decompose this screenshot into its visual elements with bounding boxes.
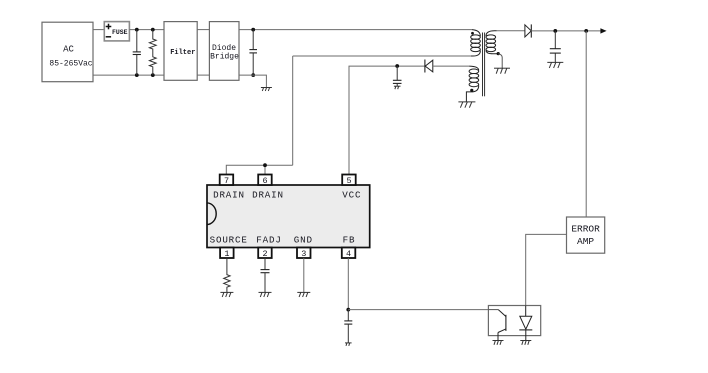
svg-text:FADJ: FADJ [256, 234, 281, 245]
junction drain bus / pin6 [263, 163, 267, 167]
pin 7 [220, 175, 234, 187]
capacitor C-vcc [393, 66, 402, 86]
svg-text:85-265Vac: 85-265Vac [49, 59, 92, 68]
IC U1 body [207, 185, 370, 248]
ground opto LED [520, 341, 531, 345]
wire secondary return [498, 54, 502, 68]
capacitor C-bulk [249, 30, 257, 76]
optocoupler phototransistor [488, 310, 506, 341]
diode D-out [497, 24, 532, 37]
wire FB pin down [347, 258, 349, 310]
junction top rail / R-in [151, 28, 155, 32]
svg-text:FB: FB [343, 234, 356, 245]
resistor R-in (double zigzag) [149, 30, 156, 76]
pin 4 [342, 248, 356, 260]
Filter block [164, 22, 197, 81]
transformer T1 primary winding [471, 30, 481, 56]
svg-text:Bridge: Bridge [210, 52, 239, 61]
pin 2 [258, 248, 272, 260]
wire VCC net right segment [433, 65, 469, 67]
ground C-out [547, 62, 563, 68]
wire output rail [531, 30, 601, 32]
svg-text:AMP: AMP [577, 236, 594, 247]
wire DC rail to transformer primary [239, 29, 472, 31]
optocoupler LED [519, 306, 532, 341]
fuse F1 [104, 22, 129, 41]
phase dot primary [471, 32, 474, 35]
ground C-vcc (small) [394, 86, 401, 89]
wire filter to diode bridge bottom [197, 74, 209, 76]
wire VCC net left segment [349, 66, 425, 174]
wire AC bottom to filter (bottom rail) [93, 74, 164, 76]
svg-text:6: 6 [262, 176, 267, 186]
svg-text:DRAIN: DRAIN [213, 189, 245, 200]
junction DC rail / C-bulk [251, 28, 255, 32]
svg-text:4: 4 [346, 249, 351, 259]
capacitor C-fadj [261, 258, 270, 292]
transformer T1 secondary winding [486, 31, 498, 54]
ground secondary [494, 68, 510, 74]
junction top rail / C-in [135, 28, 139, 32]
wire DB bottom to primary ground [239, 75, 266, 87]
junction VCC / C-vcc [395, 64, 399, 68]
ground opto emitter [493, 341, 504, 345]
wire filter to diode bridge top [197, 29, 209, 31]
wire GND pin to ground [303, 258, 305, 292]
optocoupler U2 box [488, 306, 540, 336]
wire drain bus to pins 7 and 6 [226, 165, 292, 174]
wire error amp tap down [585, 31, 587, 217]
transformer T1 aux winding [466, 66, 478, 102]
wire drain net horizontal [293, 55, 471, 57]
Diode Bridge block [209, 22, 239, 81]
wire drain riser [292, 56, 294, 165]
ground R-source [220, 292, 233, 297]
phase dot aux [470, 89, 473, 92]
junction bottom / C-bulk [251, 73, 255, 77]
svg-text:7: 7 [224, 176, 229, 186]
svg-text:SOURCE: SOURCE [210, 234, 248, 245]
svg-text:GND: GND [294, 234, 313, 245]
svg-text:DRAIN: DRAIN [252, 189, 284, 200]
svg-text:5: 5 [346, 176, 351, 186]
resistor R-source [224, 258, 230, 292]
junction output / C-out [553, 29, 557, 33]
ERROR AMP block [567, 217, 605, 253]
junction FB node [346, 308, 350, 312]
wire error amp to opto riser [526, 234, 567, 305]
phase dot secondary [497, 52, 500, 55]
pin 1 [220, 248, 234, 260]
output arrow [600, 28, 606, 33]
ground primary return [261, 88, 272, 92]
ground C-fb (small) [345, 343, 352, 346]
junction output / error amp tap [584, 29, 588, 33]
diode D-vcc [425, 60, 433, 73]
svg-text:AC: AC [63, 45, 74, 55]
svg-text:FUSE: FUSE [112, 29, 128, 36]
svg-text:Filter: Filter [170, 49, 195, 57]
ground aux [458, 102, 475, 108]
capacitor C-in [133, 30, 141, 76]
wire AC top to fuse [93, 29, 104, 31]
ground GND pin [297, 292, 310, 297]
wire fuse to filter (top rail) [129, 29, 164, 31]
wire FB node to optocoupler [348, 309, 488, 311]
svg-text:2: 2 [262, 249, 267, 259]
pin 5 [342, 175, 356, 187]
capacitor C-fb [344, 310, 352, 343]
junction bottom rail / C-in [135, 73, 139, 77]
svg-text:ERROR: ERROR [571, 223, 600, 234]
svg-text:VCC: VCC [342, 189, 361, 200]
pin 6 [258, 175, 272, 187]
svg-text:3: 3 [301, 249, 306, 259]
junction bottom rail / R-in [151, 73, 155, 77]
AC source 85-265Vac [42, 22, 93, 81]
transformer T1 core [483, 33, 485, 97]
capacitor C-out [550, 31, 561, 62]
ground C-fadj [259, 292, 272, 297]
svg-text:1: 1 [224, 249, 229, 259]
pin 3 [297, 248, 311, 260]
